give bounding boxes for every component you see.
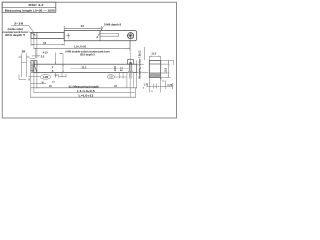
rod inner verticals (countersink edges) (33, 32, 35, 38)
title block divider (2, 6, 56, 8)
side view hatch strip (150, 73, 161, 77)
svg-text:L1+L0+16: L1+L0+16 (74, 45, 87, 49)
countersunk hole circle (127, 32, 134, 39)
svg-text:Ø10 depth 5: Ø10 depth 5 (5, 33, 26, 37)
vertical dim bar height (63, 54, 64, 73)
dim L1+L0+16 (34, 47, 130, 49)
vertical dim at bar right end (137, 61, 148, 77)
left countersink cone (34, 64, 37, 72)
balloon 4-Ø2 (40, 75, 51, 80)
leader from label to rod end (29, 32, 36, 36)
svg-text:DSC 4.2: DSC 4.2 (29, 3, 44, 7)
dim 16 (red) (31, 44, 64, 46)
svg-text:2-16: 2-16 (14, 22, 24, 26)
svg-text:1.75: 1.75 (144, 85, 149, 87)
svg-text:Ø10 depth 5: Ø10 depth 5 (80, 53, 95, 57)
extension lines below top view left end (31, 39, 64, 59)
center mark in block (66, 33, 70, 38)
mini dim at left boss top (30, 58, 35, 60)
svg-text:Measuring length L0=50 — 1000: Measuring length L0=50 — 1000 (5, 8, 55, 12)
side view right dims (161, 60, 174, 77)
svg-text:11.5: 11.5 (151, 52, 156, 55)
balloon 1.5 under right hole (107, 75, 114, 79)
svg-text:4-10: 4-10 (43, 52, 48, 55)
leader from 2-16 (11, 25, 34, 32)
svg-text:L1=L0+9.5: L1=L0+9.5 (77, 90, 95, 93)
svg-text:10.5: 10.5 (114, 66, 117, 71)
svg-text:Ø4: Ø4 (22, 49, 26, 53)
svg-text:11.5: 11.5 (164, 67, 167, 72)
bar centerline (70, 67, 129, 69)
svg-text:(L) Measuring length: (L) Measuring length (69, 85, 100, 88)
title block box (2, 2, 56, 12)
left boss (31, 61, 37, 64)
leader to bar (60, 52, 63, 54)
svg-text:L=L0+11: L=L0+11 (79, 95, 95, 98)
drawing frame (2, 2, 176, 118)
block inner vertical (99, 31, 101, 41)
row B dim (31, 87, 137, 89)
row C dim (34, 91, 135, 93)
svg-text:Measuring surface 7.5±0.1: Measuring surface 7.5±0.1 (138, 50, 141, 79)
right boss / countersunk section (128, 60, 134, 65)
row D dim (31, 96, 136, 98)
top view block (64, 31, 137, 41)
svg-text:44: 44 (81, 24, 85, 28)
hidden bore band (100, 32, 119, 34)
left end section hatch (31, 64, 34, 72)
side view bottom dims (147, 78, 173, 93)
dim 44 (64, 26, 101, 31)
bottom extension verticals (31, 73, 137, 98)
top view rod (31, 32, 64, 38)
front view bar (31, 64, 137, 72)
leader 2-M6 (97, 26, 104, 38)
side view square (149, 61, 160, 78)
svg-text:2-M6 depth 8: 2-M6 depth 8 (104, 22, 122, 26)
svg-text:0.75: 0.75 (168, 85, 173, 87)
svg-text:4-Ø2: 4-Ø2 (43, 76, 49, 79)
svg-text:22.5: 22.5 (81, 66, 86, 69)
center line through right hole (129, 39, 131, 97)
row1 dim pieces (29, 73, 67, 78)
